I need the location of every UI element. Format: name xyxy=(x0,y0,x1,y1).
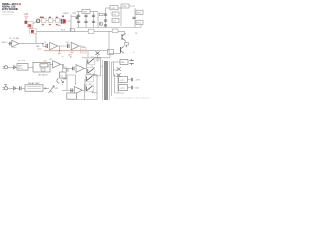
wire xyxy=(25,18,27,21)
svg-text:Rx: Rx xyxy=(64,79,66,81)
capacitor C19 xyxy=(73,67,74,71)
box U11 xyxy=(136,20,143,24)
PSU box U6 xyxy=(110,6,118,10)
wire xyxy=(43,87,49,89)
transistor Q4 xyxy=(87,66,95,74)
svg-text:Bs: Bs xyxy=(60,75,62,77)
box filter F1 xyxy=(30,29,37,34)
svg-text:0.5A: 0.5A xyxy=(135,87,140,90)
wire xyxy=(40,20,41,22)
svg-text:T7: T7 xyxy=(89,84,91,86)
svg-text:C9: C9 xyxy=(44,42,46,44)
svg-text:AL2: AL2 xyxy=(80,45,83,48)
op-amp U4 xyxy=(53,61,61,68)
op-amp U1 xyxy=(12,40,19,47)
box terminal xyxy=(81,48,86,53)
diode D1 xyxy=(96,51,100,55)
capacitor C21 xyxy=(130,59,134,65)
svg-text:OSC1: OSC1 xyxy=(63,13,70,15)
diode D4 xyxy=(117,67,121,71)
wire xyxy=(129,6,135,28)
diode D2 xyxy=(14,66,16,70)
svg-text:MIC 1: MIC 1 xyxy=(2,42,8,44)
wire xyxy=(97,12,99,28)
feedback rail wire xyxy=(44,50,86,52)
svg-text:OUT1: OUT1 xyxy=(120,80,125,82)
capacitor C13 xyxy=(104,20,107,21)
wire xyxy=(109,31,125,53)
svg-text:REG: REG xyxy=(83,12,88,14)
input connector J1 xyxy=(3,66,8,69)
svg-text:AMP: AMP xyxy=(18,65,23,68)
capacitor C4 polarized xyxy=(58,16,66,28)
wire xyxy=(53,20,56,22)
wire xyxy=(46,20,49,22)
svg-text:REC: REC xyxy=(121,62,126,64)
speaker arc symbol xyxy=(57,79,66,84)
wire xyxy=(19,34,46,47)
svg-text:T3: T3 xyxy=(91,57,93,59)
box enclosure xyxy=(27,21,33,27)
wire xyxy=(60,20,61,22)
wire xyxy=(128,80,132,88)
wire xyxy=(58,46,68,51)
wire xyxy=(8,87,19,89)
transformer T1 xyxy=(103,60,112,100)
svg-text:DELAY UNIT: DELAY UNIT xyxy=(28,82,40,85)
wire xyxy=(115,74,125,93)
svg-text:AC 24V in: AC 24V in xyxy=(39,74,49,77)
wire long bus xyxy=(37,30,122,32)
svg-text:d3: d3 xyxy=(13,92,15,94)
svg-text:C10: C10 xyxy=(65,42,68,44)
box U16 xyxy=(67,93,77,99)
wire xyxy=(79,46,84,48)
capacitor C14 xyxy=(104,25,107,26)
svg-text:R 1M: R 1M xyxy=(14,38,19,40)
box U8 xyxy=(112,19,119,23)
wire xyxy=(66,15,71,32)
box U17 xyxy=(120,59,128,64)
box U9 xyxy=(121,4,129,8)
box U12 xyxy=(88,29,94,33)
capacitor C15 xyxy=(132,17,135,18)
wire xyxy=(78,12,80,28)
capacitor C17 xyxy=(46,44,47,48)
svg-text:T4: T4 xyxy=(91,66,93,68)
svg-text:OUT2: OUT2 xyxy=(120,88,125,90)
svg-text:IC1: IC1 xyxy=(113,14,116,16)
junction node xyxy=(59,50,60,51)
wire xyxy=(50,63,53,65)
resistor R1 red text in box xyxy=(28,24,31,26)
op-amp U3 xyxy=(71,42,79,50)
wire xyxy=(21,87,25,89)
capacitor C6 xyxy=(77,15,80,16)
transistor Q1 xyxy=(122,33,126,42)
stage cell 1 xyxy=(42,17,46,26)
box module M1 xyxy=(17,64,28,71)
box U10 xyxy=(136,10,143,14)
title text block xyxy=(2,2,22,16)
svg-text:MOD: MOD xyxy=(18,68,23,70)
wire xyxy=(82,89,85,91)
wire xyxy=(8,43,12,45)
capacitor C24 xyxy=(67,69,68,72)
box U14 xyxy=(112,29,118,33)
wire xyxy=(8,66,17,68)
box U18 xyxy=(119,77,128,83)
regulator sub wires xyxy=(82,51,110,58)
PSU bottom bus xyxy=(77,27,142,29)
wire xyxy=(77,75,98,100)
box U13 xyxy=(108,49,114,54)
svg-text:pre amp: pre amp xyxy=(18,59,25,62)
capacitor C12 xyxy=(104,14,107,15)
wire xyxy=(28,66,33,68)
wire xyxy=(112,61,121,63)
wire xyxy=(120,8,122,26)
capacitor C10 xyxy=(92,15,95,16)
capacitor C5 xyxy=(76,17,79,18)
capacitor C11 xyxy=(92,21,95,22)
junction node xyxy=(42,43,43,44)
ground xyxy=(96,59,100,61)
svg-text:+ 18V: + 18V xyxy=(135,80,141,82)
svg-text:BUS: BUS xyxy=(61,30,66,32)
svg-text:T6: T6 xyxy=(89,74,91,76)
wire xyxy=(62,89,74,91)
transistor Q5 xyxy=(99,22,102,25)
svg-text:SW1: SW1 xyxy=(137,13,141,15)
capacitor C8 xyxy=(84,15,87,16)
wire xyxy=(60,64,72,72)
wire xyxy=(63,75,76,90)
capacitor C9 xyxy=(84,21,87,22)
svg-text:Vd2: Vd2 xyxy=(64,67,67,69)
arrow mark xyxy=(45,87,47,89)
wire xyxy=(71,15,77,21)
wire xyxy=(140,25,142,28)
op-amp U6 xyxy=(74,87,82,95)
capacitor C1 xyxy=(37,17,42,23)
transistor Q7 xyxy=(86,84,94,92)
PSU top bus 2 xyxy=(106,7,122,9)
resistor R2 xyxy=(70,29,74,32)
svg-text:OSC: OSC xyxy=(111,8,116,10)
svg-text:schematic diagram archive coll: schematic diagram archive collection 03 xyxy=(115,96,150,99)
capacitor C7 xyxy=(77,21,80,22)
stage cell 2 xyxy=(49,17,53,26)
capacitor C22 xyxy=(131,78,132,81)
svg-text:IC2: IC2 xyxy=(113,21,116,23)
resistor R5 xyxy=(31,30,34,33)
wire xyxy=(33,21,41,24)
box U15 xyxy=(60,72,67,78)
PSU top bus xyxy=(77,11,99,13)
svg-text:Tr: Tr xyxy=(62,57,64,59)
transistor Q2 xyxy=(121,45,127,53)
wire xyxy=(114,62,120,76)
diode D3 xyxy=(14,87,16,91)
PSU box U5 xyxy=(82,9,90,13)
svg-text:rev history 1.3: rev history 1.3 xyxy=(2,13,13,16)
svg-text:SW2: SW2 xyxy=(137,23,141,25)
wire xyxy=(85,14,87,28)
resistor R3 xyxy=(99,13,103,15)
capacitor C18 xyxy=(68,44,69,48)
transistor Q3 xyxy=(87,57,95,65)
svg-text:XTAL: XTAL xyxy=(122,5,127,8)
capacitor C16 xyxy=(10,42,11,46)
wire xyxy=(94,57,103,75)
capacitor C20 xyxy=(20,86,21,90)
resistor R7 xyxy=(125,43,129,46)
stage cell 3 xyxy=(56,17,60,26)
wire xyxy=(84,61,86,75)
potentiometer arrow xyxy=(49,86,55,93)
feedback marks xyxy=(13,47,17,49)
box module M2 xyxy=(33,62,50,72)
svg-text:9oV: 9oV xyxy=(25,16,29,18)
diode D5 xyxy=(117,73,121,77)
wire xyxy=(93,12,95,28)
op-amp U2 xyxy=(50,42,58,50)
box U19 xyxy=(119,85,128,91)
box U7 xyxy=(112,12,119,16)
op-amp U5 xyxy=(76,65,84,73)
svg-text:b: b xyxy=(125,35,126,37)
input connector J2 xyxy=(3,85,8,90)
wire xyxy=(105,8,107,28)
box module M3 xyxy=(25,85,43,91)
svg-text:10u: 10u xyxy=(58,25,61,27)
transistor Q6 xyxy=(86,74,94,82)
capacitor C23 xyxy=(131,86,132,89)
battery B1 xyxy=(25,21,28,24)
capacitor C25 xyxy=(71,88,72,92)
